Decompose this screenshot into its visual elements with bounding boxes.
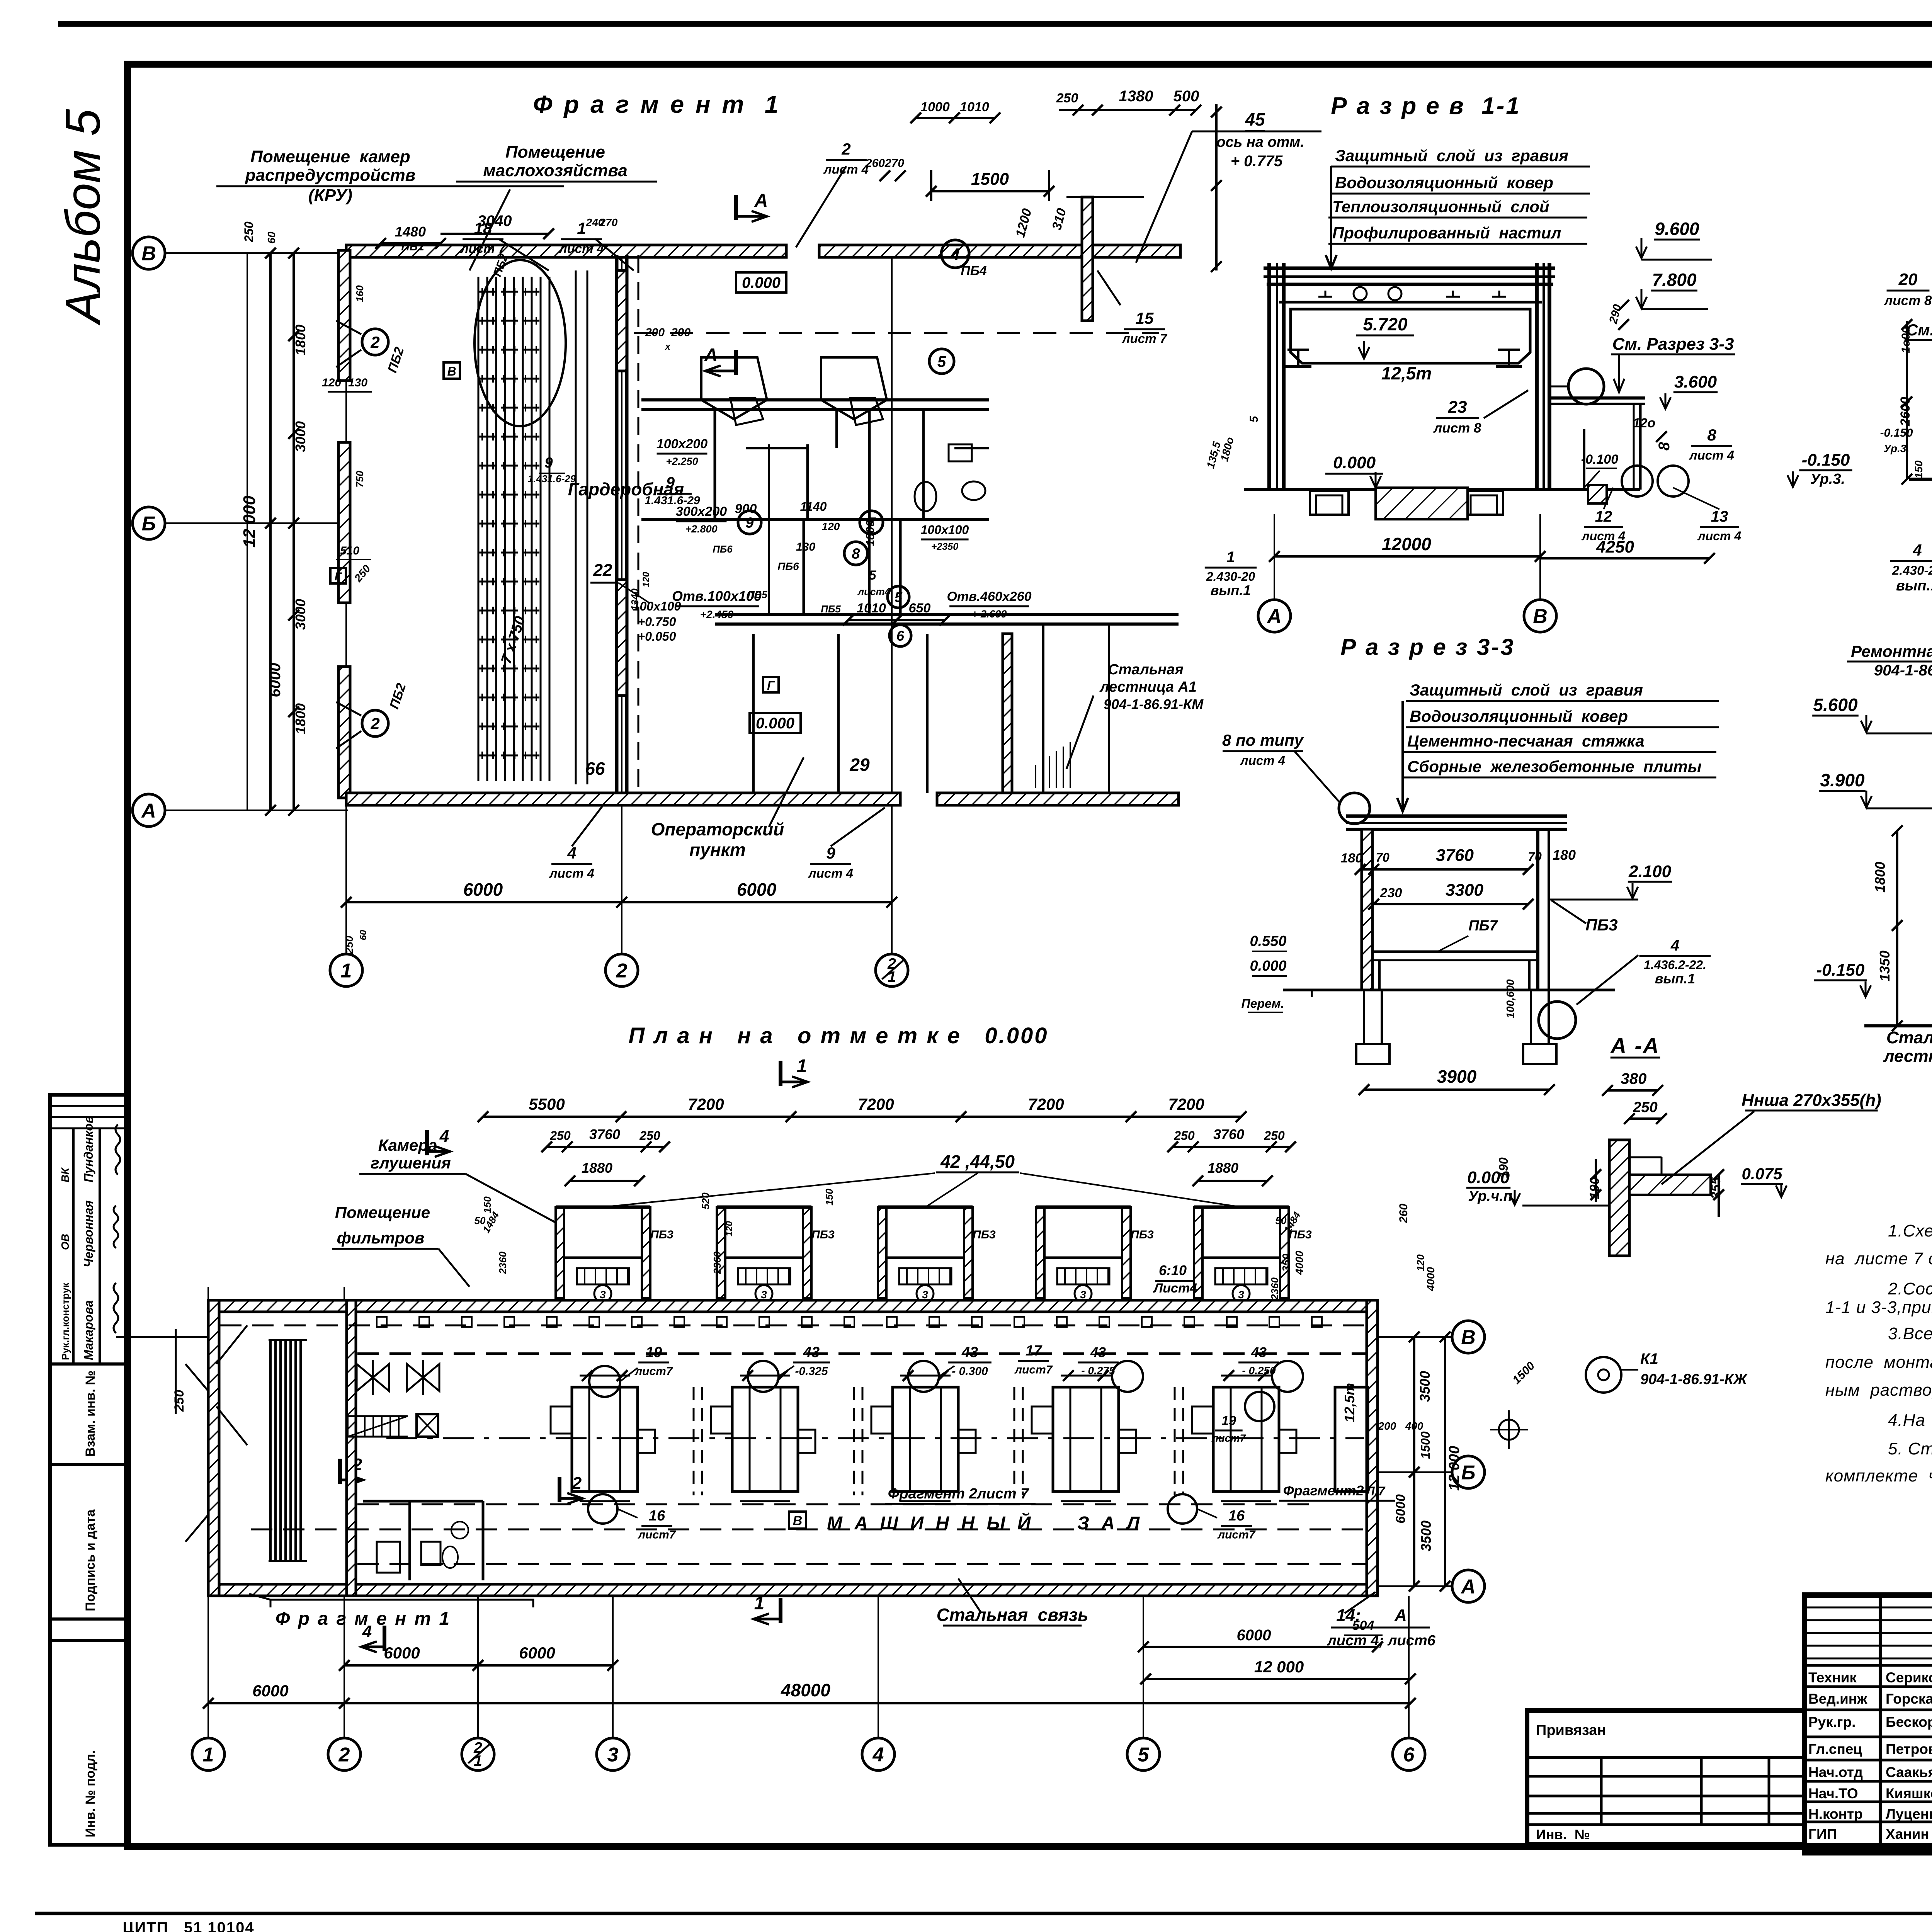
- svg-text:лист7: лист7: [1217, 1528, 1255, 1541]
- svg-text:48000: 48000: [781, 1680, 830, 1700]
- svg-text:1.436.2-22.: 1.436.2-22.: [1644, 958, 1706, 972]
- svg-text:Ремонтная площадка: Ремонтная площадка: [1851, 642, 1932, 660]
- svg-text:лист7: лист7: [634, 1365, 673, 1378]
- svg-text:Б: Б: [1461, 1462, 1476, 1484]
- svg-text:230: 230: [1380, 886, 1402, 900]
- svg-text:5: 5: [1138, 1744, 1150, 1766]
- svg-text:8: 8: [1707, 426, 1716, 444]
- svg-text:П л а н н а о т м е т к е: П л а н н а о т м е т к е 0.000: [628, 1023, 1048, 1048]
- svg-text:+2350: +2350: [931, 541, 958, 552]
- svg-text:лист 4: лист 4: [808, 866, 853, 881]
- svg-text:6000: 6000: [384, 1644, 420, 1662]
- svg-text:лист7: лист7: [1211, 1432, 1246, 1444]
- svg-text:190: 190: [1497, 1157, 1510, 1178]
- svg-text:ПБ7: ПБ7: [1468, 918, 1498, 934]
- svg-text:0.075: 0.075: [1742, 1165, 1782, 1183]
- svg-text:70: 70: [1376, 850, 1389, 864]
- svg-text:650: 650: [909, 601, 931, 616]
- svg-text:4: 4: [567, 844, 576, 862]
- svg-text:А: А: [1460, 1576, 1476, 1598]
- svg-text:1350: 1350: [1877, 951, 1893, 981]
- svg-text:Фрагмент 2лист 7: Фрагмент 2лист 7: [888, 1486, 1029, 1502]
- svg-text:2.Состав кровли,указанный в: 2.Состав кровли,указанный в выносной над…: [1888, 1279, 1932, 1298]
- svg-text:5: 5: [937, 353, 946, 370]
- svg-text:К1: К1: [1640, 1350, 1658, 1367]
- svg-text:43: 43: [961, 1344, 978, 1361]
- svg-text:12,5т: 12,5т: [1381, 363, 1432, 383]
- svg-text:150: 150: [1913, 460, 1925, 478]
- svg-text:3040: 3040: [478, 213, 512, 230]
- svg-text:1.431.6-29: 1.431.6-29: [645, 494, 700, 507]
- svg-text:66: 66: [585, 759, 605, 779]
- svg-text:22: 22: [593, 561, 612, 580]
- svg-text:Бескоровайный: Бескоровайный: [1886, 1714, 1932, 1730]
- svg-text:3: 3: [761, 1289, 767, 1301]
- svg-text:3500: 3500: [1417, 1371, 1433, 1402]
- svg-text:5. Стальные лестницы и огра: 5. Стальные лестницы и ограждения смотри…: [1888, 1439, 1932, 1458]
- svg-text:1.Схему расположения подземн: 1.Схему расположения подземных конструкц…: [1888, 1221, 1932, 1240]
- svg-text:3: 3: [1080, 1289, 1086, 1301]
- svg-text:- 0.275: - 0.275: [1081, 1365, 1115, 1377]
- svg-text:1800: 1800: [293, 703, 308, 734]
- svg-text:260: 260: [1397, 1204, 1410, 1223]
- svg-text:А: А: [1266, 605, 1282, 628]
- svg-text:2.100: 2.100: [1628, 862, 1672, 881]
- svg-text:160: 160: [354, 285, 366, 302]
- svg-text:ПБ6: ПБ6: [777, 560, 799, 572]
- svg-text:355: 355: [1709, 1177, 1723, 1199]
- svg-text:9: 9: [666, 474, 675, 491]
- svg-text:1480: 1480: [395, 224, 426, 240]
- svg-text:1800: 1800: [1872, 862, 1888, 893]
- svg-text:В: В: [141, 243, 156, 265]
- svg-text:Саакьянц: Саакьянц: [1886, 1764, 1932, 1780]
- svg-text:4.На фрагменте 1 даны отмет: 4.На фрагменте 1 даны отметки низа отвер…: [1888, 1411, 1932, 1430]
- svg-text:4250: 4250: [1596, 537, 1634, 556]
- svg-text:3760: 3760: [589, 1126, 620, 1142]
- svg-text:5.720: 5.720: [1363, 314, 1408, 334]
- svg-text:Перем.: Перем.: [1242, 997, 1284, 1010]
- svg-text:Помещение: Помещение: [335, 1203, 430, 1221]
- svg-text:1140: 1140: [800, 500, 827, 514]
- svg-text:лист 4: лист 4: [549, 866, 594, 881]
- svg-text:лист 7: лист 7: [1121, 332, 1168, 346]
- svg-text:60: 60: [358, 930, 369, 940]
- svg-text:1880: 1880: [1207, 1160, 1238, 1176]
- svg-text:Г: Г: [767, 679, 775, 692]
- svg-text:лист4: лист4: [857, 586, 891, 597]
- svg-text:270: 270: [599, 216, 618, 228]
- svg-text:ПБ1: ПБ1: [401, 240, 424, 253]
- svg-text:42 ,44,50: 42 ,44,50: [940, 1151, 1015, 1172]
- svg-text:маслохозяйства: маслохозяйства: [483, 161, 628, 180]
- svg-text:43: 43: [1090, 1344, 1106, 1360]
- svg-text:+0.750: +0.750: [638, 615, 676, 629]
- svg-text:Ур.3.: Ур.3.: [1810, 471, 1845, 487]
- svg-text:Рук.гр.: Рук.гр.: [1808, 1714, 1855, 1730]
- svg-text:1: 1: [577, 219, 586, 237]
- svg-text:Ханин: Ханин: [1886, 1826, 1929, 1842]
- svg-text:распредустройств: распредустройств: [245, 166, 416, 185]
- svg-text:0.000: 0.000: [756, 715, 794, 732]
- svg-text:12 000: 12 000: [1254, 1658, 1304, 1676]
- svg-text:-0.150: -0.150: [1816, 961, 1865, 980]
- svg-text:Л.7: Л.7: [1366, 1484, 1386, 1498]
- svg-text:1-1 и 3-3,приведен в общих: 1-1 и 3-3,приведен в общих указаниях на …: [1825, 1298, 1932, 1317]
- svg-text:100x200: 100x200: [656, 437, 707, 451]
- svg-text:16: 16: [1228, 1508, 1245, 1524]
- svg-text:Инв. №: Инв. №: [1536, 1827, 1590, 1842]
- svg-text:2600: 2600: [1898, 397, 1913, 427]
- svg-text:ПБ3: ПБ3: [650, 1228, 673, 1241]
- svg-text:2: 2: [572, 1474, 582, 1493]
- svg-text:180: 180: [1553, 847, 1576, 863]
- svg-text:Серикова: Серикова: [1886, 1670, 1932, 1685]
- svg-text:19: 19: [646, 1344, 662, 1361]
- svg-text:8: 8: [852, 546, 860, 562]
- svg-text:Сборные железобетонные плиты: Сборные железобетонные плиты: [1407, 757, 1702, 776]
- svg-text:Червонная: Червонная: [82, 1200, 95, 1267]
- svg-text:6:10: 6:10: [1159, 1262, 1187, 1278]
- svg-text:1500: 1500: [971, 170, 1009, 189]
- svg-text:Кияшко: Кияшко: [1886, 1786, 1932, 1801]
- svg-text:ПБ6: ПБ6: [713, 543, 733, 555]
- svg-text:2: 2: [841, 140, 850, 158]
- svg-text:43: 43: [803, 1344, 820, 1361]
- svg-text:3.Все отверстия в ограждающ: 3.Все отверстия в ограждающих конструкци…: [1888, 1324, 1932, 1343]
- svg-text:1000: 1000: [920, 100, 950, 114]
- svg-text:лист7: лист7: [1014, 1363, 1053, 1376]
- svg-text:9: 9: [544, 455, 553, 471]
- svg-text:120: 120: [322, 376, 341, 389]
- svg-text:6000: 6000: [737, 879, 777, 900]
- svg-text:7: 7: [867, 515, 876, 531]
- svg-text:Отв.460x260: Отв.460x260: [947, 589, 1031, 604]
- svg-text:-0.325: -0.325: [795, 1365, 828, 1378]
- svg-text:Ур.ч.п.: Ур.ч.п.: [1468, 1188, 1516, 1204]
- svg-text:23: 23: [1448, 398, 1467, 417]
- svg-text:70: 70: [1528, 850, 1542, 864]
- svg-text:12 000: 12 000: [240, 495, 259, 548]
- svg-text:Ннша 270x355(h): Ннша 270x355(h): [1742, 1091, 1881, 1110]
- svg-text:4: 4: [1670, 937, 1679, 954]
- svg-text:0.000: 0.000: [742, 274, 781, 291]
- svg-text:120: 120: [724, 1221, 735, 1236]
- svg-text:лист7: лист7: [637, 1528, 676, 1541]
- svg-text:Н.контр: Н.контр: [1808, 1806, 1863, 1822]
- svg-text:лист 4: лист 4: [1689, 448, 1734, 463]
- svg-text:0.000: 0.000: [1250, 958, 1286, 974]
- svg-text:Водоизоляционный ковер: Водоизоляционный ковер: [1410, 707, 1628, 725]
- svg-text:510: 510: [340, 544, 359, 557]
- svg-text:ПБ3: ПБ3: [973, 1228, 996, 1241]
- svg-text:ПБ4: ПБ4: [961, 264, 987, 278]
- svg-text:250: 250: [1056, 91, 1078, 105]
- svg-text:А -А: А -А: [1610, 1033, 1660, 1058]
- svg-text:7200: 7200: [688, 1095, 724, 1113]
- svg-text:250: 250: [242, 221, 256, 243]
- svg-text:130: 130: [796, 541, 815, 553]
- svg-text:7.800: 7.800: [1652, 270, 1697, 290]
- svg-text:Луценко: Луценко: [1886, 1806, 1932, 1822]
- svg-text:1: 1: [203, 1744, 214, 1766]
- svg-text:8: 8: [1656, 442, 1673, 451]
- svg-text:4: 4: [950, 245, 960, 264]
- svg-text:ось на отм.: ось на отм.: [1216, 134, 1304, 150]
- svg-text:2: 2: [370, 333, 379, 351]
- svg-text:Вед.инж: Вед.инж: [1808, 1691, 1867, 1707]
- svg-text:Р а з р е в 1-1: Р а з р е в 1-1: [1331, 93, 1520, 119]
- svg-text:3760: 3760: [1436, 846, 1474, 865]
- svg-text:Операторский: Операторский: [651, 819, 784, 839]
- svg-text:- 0.250: - 0.250: [1242, 1365, 1276, 1377]
- svg-text:200: 200: [671, 326, 690, 339]
- svg-text:904-1-86.91-КЖ: 904-1-86.91-КЖ: [1640, 1371, 1748, 1388]
- svg-text:после монтажа коммуникаций: после монтажа коммуникаций тщательно зад…: [1825, 1353, 1932, 1372]
- svg-text:А: А: [754, 190, 768, 211]
- svg-text:+2.800: +2.800: [685, 523, 717, 535]
- svg-text:В: В: [1461, 1327, 1476, 1349]
- svg-text:100,600: 100,600: [1504, 979, 1516, 1019]
- svg-text:150: 150: [823, 1189, 835, 1206]
- svg-text:13: 13: [1711, 508, 1728, 525]
- svg-text:6000: 6000: [519, 1644, 555, 1662]
- svg-text:- 0.300: - 0.300: [952, 1365, 988, 1378]
- svg-text:12000: 12000: [1382, 534, 1431, 554]
- svg-text:1: 1: [797, 1056, 807, 1077]
- svg-text:7200: 7200: [858, 1095, 894, 1113]
- svg-text:лист 4: лист 4: [558, 241, 604, 256]
- svg-text:ным раствором марки 100,: ным раствором марки 100,: [1825, 1381, 1932, 1400]
- svg-text:3: 3: [1238, 1289, 1244, 1301]
- svg-text:ОВ: ОВ: [59, 1234, 71, 1250]
- svg-text:45: 45: [1245, 109, 1265, 129]
- svg-text:Пунданков: Пунданков: [82, 1116, 95, 1182]
- svg-text:250: 250: [1633, 1099, 1657, 1116]
- svg-text:Б: Б: [142, 513, 156, 535]
- svg-text:В: В: [793, 1514, 803, 1528]
- svg-text:19: 19: [1221, 1413, 1236, 1428]
- svg-text:2.430-20: 2.430-20: [1206, 570, 1255, 583]
- svg-text:Цементно-песчаная стяжка: Цементно-песчаная стяжка: [1407, 732, 1645, 750]
- svg-text:Защитный слой из гравия: Защитный слой из гравия: [1410, 681, 1643, 699]
- svg-text:0.550: 0.550: [1250, 933, 1286, 949]
- svg-text:Горская: Горская: [1886, 1691, 1932, 1707]
- svg-text:5.600: 5.600: [1813, 695, 1858, 715]
- svg-text:3: 3: [922, 1289, 928, 1301]
- svg-text:120: 120: [822, 520, 840, 532]
- svg-text:60: 60: [265, 231, 277, 244]
- svg-text:3000: 3000: [293, 599, 308, 630]
- svg-text:Альбом 5: Альбом 5: [56, 109, 110, 326]
- svg-text:9: 9: [826, 844, 835, 862]
- svg-text:Нач.отд: Нач.отд: [1808, 1764, 1863, 1780]
- svg-text:904-1-86.91-КМ: 904-1-86.91-КМ: [1874, 662, 1932, 679]
- svg-text:3.900: 3.900: [1820, 770, 1865, 790]
- svg-text:Инв. № подл.: Инв. № подл.: [83, 1750, 98, 1837]
- svg-text:ВК: ВК: [59, 1167, 71, 1182]
- svg-text:9.600: 9.600: [1655, 219, 1699, 239]
- svg-text:3: 3: [607, 1744, 619, 1766]
- svg-text:Профилированный настил: Профилированный настил: [1332, 224, 1561, 242]
- svg-text:350: 350: [1280, 1253, 1292, 1272]
- svg-text:Стальная: Стальная: [1108, 662, 1184, 678]
- svg-text:Нач.ТО: Нач.ТО: [1808, 1786, 1858, 1801]
- svg-text:Фрагмент2: Фрагмент2: [1283, 1483, 1364, 1498]
- svg-text:400: 400: [1405, 1420, 1423, 1432]
- svg-text:12,5т: 12,5т: [1342, 1383, 1357, 1422]
- svg-text:4000: 4000: [1293, 1250, 1305, 1275]
- svg-text:лист 4: лист 4: [823, 162, 869, 177]
- svg-text:лист 8: лист 8: [1884, 293, 1932, 308]
- svg-text:6000: 6000: [1393, 1494, 1408, 1524]
- svg-text:Петровский: Петровский: [1886, 1741, 1932, 1757]
- svg-text:+0.050: +0.050: [638, 629, 676, 643]
- svg-text:1: 1: [1226, 549, 1235, 566]
- svg-text:14:: 14:: [1336, 1606, 1361, 1625]
- svg-text:фильтров: фильтров: [337, 1229, 425, 1247]
- svg-text:12: 12: [1595, 508, 1612, 525]
- svg-text:лестница А1: лестница А1: [1883, 1047, 1932, 1066]
- svg-text:250: 250: [549, 1129, 571, 1143]
- svg-text:глушения: глушения: [371, 1154, 451, 1172]
- svg-text:250: 250: [172, 1390, 187, 1412]
- svg-text:380: 380: [1621, 1070, 1647, 1087]
- svg-text:3: 3: [600, 1289, 606, 1301]
- svg-text:750: 750: [354, 471, 366, 488]
- svg-text:5: 5: [869, 568, 877, 583]
- svg-text:6000: 6000: [463, 879, 503, 900]
- svg-text:ПБ3: ПБ3: [1585, 916, 1617, 934]
- svg-text:вып.1: вып.1: [1655, 971, 1696, 986]
- svg-text:3000: 3000: [293, 421, 308, 452]
- svg-text:2: 2: [338, 1744, 350, 1766]
- svg-text:ПБ3: ПБ3: [1131, 1228, 1154, 1241]
- svg-text:250: 250: [639, 1129, 660, 1143]
- svg-text:Лист4: Лист4: [1153, 1281, 1197, 1296]
- svg-text:2: 2: [616, 960, 628, 982]
- svg-text:1010: 1010: [960, 100, 989, 114]
- svg-text:лист 4: лист 4: [1697, 529, 1742, 543]
- svg-text:7200: 7200: [1028, 1095, 1064, 1113]
- svg-text:Камера: Камера: [378, 1136, 437, 1154]
- svg-text:2360: 2360: [497, 1252, 509, 1274]
- svg-text:лист 4: лист 4: [1240, 753, 1285, 768]
- svg-text:200: 200: [645, 326, 665, 339]
- svg-text:1: 1: [341, 960, 352, 982]
- svg-text:Макарова: Макарова: [82, 1300, 95, 1360]
- svg-text:3900: 3900: [1437, 1066, 1477, 1087]
- svg-text:Теплоизоляционный слой: Теплоизоляционный слой: [1332, 197, 1549, 216]
- svg-text:вып.1: вып.1: [1211, 582, 1251, 598]
- svg-text:20: 20: [1898, 270, 1918, 289]
- svg-text:Техник: Техник: [1808, 1670, 1857, 1685]
- svg-text:ПБ5: ПБ5: [821, 603, 841, 615]
- svg-text:100x100: 100x100: [921, 523, 969, 537]
- svg-text:на листе 7 основного комплек: на листе 7 основного комплекта чертежей …: [1825, 1249, 1932, 1268]
- svg-text:1.431.6-29: 1.431.6-29: [528, 473, 576, 485]
- svg-text:250: 250: [1264, 1129, 1285, 1143]
- svg-text:лист 8: лист 8: [1433, 420, 1481, 435]
- svg-text:5: 5: [1248, 415, 1260, 422]
- svg-text:7200: 7200: [1168, 1095, 1204, 1113]
- svg-text:ПБ3: ПБ3: [811, 1228, 835, 1241]
- svg-text:+2.450: +2.450: [700, 609, 734, 621]
- svg-text:1010: 1010: [857, 601, 886, 616]
- svg-text:4: 4: [872, 1744, 884, 1766]
- svg-text:1380: 1380: [1119, 88, 1153, 105]
- svg-text:16: 16: [649, 1508, 665, 1524]
- svg-text:1500: 1500: [1418, 1431, 1432, 1459]
- svg-text:9: 9: [745, 515, 753, 531]
- svg-text:+ 0.775: + 0.775: [1231, 153, 1283, 170]
- svg-text:Рук.гл.конструк: Рук.гл.конструк: [60, 1282, 71, 1360]
- svg-text:Стальная: Стальная: [1886, 1028, 1932, 1047]
- svg-text:3500: 3500: [1418, 1520, 1434, 1551]
- svg-text:ПБ5: ПБ5: [747, 589, 767, 600]
- svg-text:520: 520: [700, 1192, 711, 1209]
- svg-text:2: 2: [370, 714, 379, 733]
- svg-text:3760: 3760: [1213, 1126, 1244, 1142]
- svg-text:Ф р а г м е н т 1: Ф р а г м е н т 1: [533, 90, 781, 118]
- svg-text:Г: Г: [335, 570, 342, 583]
- svg-text:0.000: 0.000: [1333, 453, 1376, 472]
- svg-text:250: 250: [1173, 1129, 1195, 1143]
- svg-text:6000: 6000: [252, 1682, 288, 1700]
- svg-text:2360: 2360: [1269, 1277, 1281, 1300]
- svg-text:6000: 6000: [267, 663, 284, 697]
- svg-text:12 000: 12 000: [1446, 1446, 1463, 1491]
- svg-text:Гл.спец: Гл.спец: [1808, 1741, 1862, 1757]
- svg-text:(КРУ): (КРУ): [308, 186, 352, 205]
- svg-text:900: 900: [735, 502, 757, 516]
- svg-text:х: х: [664, 342, 671, 352]
- svg-text:А: А: [141, 800, 156, 822]
- svg-text:130: 130: [348, 376, 367, 389]
- svg-text:904-1-86.91-КМ: 904-1-86.91-КМ: [1104, 696, 1204, 712]
- svg-text:5500: 5500: [529, 1095, 565, 1113]
- svg-text:Помещение: Помещение: [505, 143, 605, 162]
- svg-text:-0.150: -0.150: [1802, 451, 1850, 469]
- svg-text:комплекте чертежей 904-1-86: комплекте чертежей 904-1-86.91-КМ .: [1825, 1466, 1932, 1485]
- svg-text:А: А: [1394, 1606, 1407, 1625]
- svg-text:120: 120: [641, 571, 651, 587]
- svg-text:-0.100: -0.100: [1581, 452, 1618, 467]
- svg-text:ГИП: ГИП: [1808, 1826, 1837, 1842]
- svg-text:6: 6: [896, 628, 905, 644]
- svg-text:М А Ш И Н Н Ы Й З А Л: М А Ш И Н Н Ы Й З А Л: [827, 1512, 1143, 1534]
- svg-text:1800: 1800: [293, 325, 308, 355]
- svg-text:ЦИТП 51 10104: ЦИТП 51 10104: [122, 1919, 254, 1932]
- svg-text:180: 180: [1341, 851, 1363, 866]
- svg-text:12о: 12о: [1633, 416, 1656, 430]
- svg-text:пункт: пункт: [689, 840, 746, 860]
- svg-text:4: 4: [1912, 541, 1922, 559]
- svg-text:-0.150: -0.150: [1880, 427, 1913, 439]
- svg-text:200: 200: [1378, 1420, 1396, 1432]
- svg-text:Водоизоляционный ковер: Водоизоляционный ковер: [1335, 173, 1553, 192]
- svg-text:В: В: [447, 364, 456, 378]
- svg-text:Помещение камер: Помещение камер: [250, 147, 410, 166]
- svg-text:2.430-20: 2.430-20: [1892, 563, 1932, 578]
- svg-text:Ф р а г м е н т 1: Ф р а г м е н т 1: [276, 1609, 451, 1629]
- svg-text:вып.1: вып.1: [1896, 578, 1932, 594]
- svg-text:8 по типу: 8 по типу: [1222, 731, 1304, 749]
- svg-text:1340: 1340: [629, 588, 641, 611]
- svg-text:3.600: 3.600: [1674, 372, 1717, 391]
- svg-text:+ 2.600: + 2.600: [972, 608, 1007, 620]
- svg-text:500: 500: [1173, 88, 1199, 105]
